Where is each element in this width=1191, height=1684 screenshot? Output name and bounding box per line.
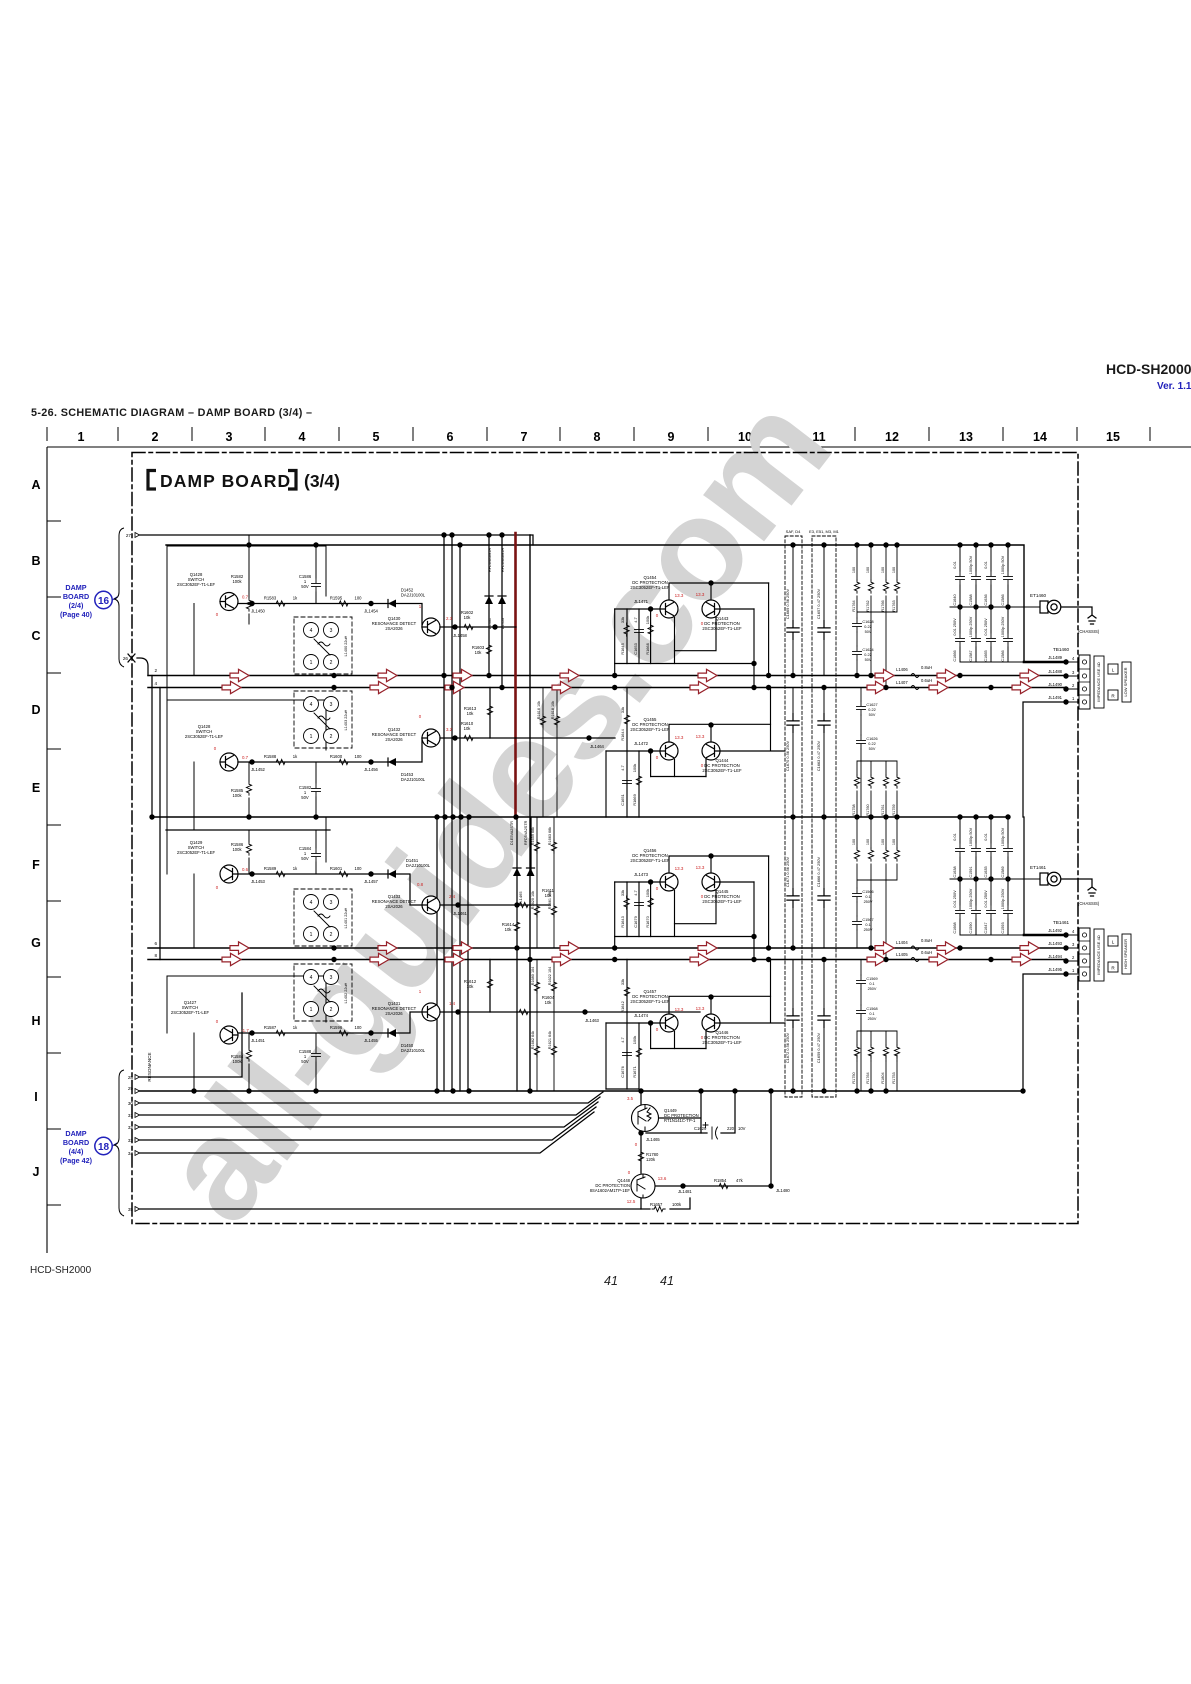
svg-text:0.22: 0.22	[868, 742, 875, 746]
wire second bus feed	[147, 687, 149, 689]
resistor/capacitor columns R1764/R1762/R1766/R1763, C1628/C1624, C1627/C1626, R1758/R1760/R1761/R1759, C1566/C1567, C1569/C1568, R1750 group	[852, 545, 900, 1091]
svg-text:100: 100	[355, 866, 363, 871]
node JL1480	[768, 1183, 773, 1188]
svg-text:R1682 64k: R1682 64k	[531, 1031, 535, 1049]
svg-text:47k: 47k	[736, 1178, 744, 1183]
svg-text:100: 100	[852, 567, 856, 573]
inner board title	[148, 471, 340, 492]
svg-text:R1642: R1642	[620, 1001, 625, 1012]
svg-text:C1666: C1666	[953, 650, 957, 661]
box Q1429	[167, 817, 326, 874]
svg-text:100k: 100k	[232, 793, 242, 798]
svg-text:2: 2	[1072, 955, 1075, 960]
DC protection block Q1449 / Q1448	[590, 1091, 791, 1212]
transistor Q1456 DC protection	[660, 873, 678, 891]
svg-text:13.3: 13.3	[675, 735, 684, 740]
svg-text:0: 0	[216, 1019, 219, 1024]
svg-text:ET1461: ET1461	[1030, 865, 1047, 870]
svg-text:-1.7: -1.7	[241, 1028, 249, 1033]
svg-text:0.01 250V: 0.01 250V	[953, 618, 957, 636]
svg-text:250V: 250V	[868, 987, 877, 991]
svg-text:41: 41	[604, 1274, 618, 1288]
svg-text:0.22: 0.22	[868, 708, 875, 712]
svg-text:0: 0	[216, 612, 219, 617]
svg-text:100k: 100k	[672, 1202, 682, 1207]
connector line 28	[137, 993, 242, 1077]
svg-text:DA2J10100L: DA2J10100L	[401, 593, 426, 598]
svg-text:R1680 104: R1680 104	[531, 967, 535, 986]
svg-text:R1670: R1670	[645, 915, 650, 927]
svg-text:C1638: C1638	[953, 866, 957, 877]
svg-text:0.01: 0.01	[953, 561, 957, 568]
node JL1481	[680, 1183, 685, 1188]
svg-text:100k: 100k	[232, 579, 242, 584]
svg-text:1: 1	[78, 430, 85, 444]
resistor R1643 33k	[624, 896, 629, 909]
svg-text:R1600: R1600	[330, 754, 343, 759]
diode D1450 DA2J10100L	[388, 1029, 396, 1037]
diode D1453 DA2J10100L	[388, 758, 396, 766]
channel series parts JL1450/JL1454/JL1452/JL1456/JL1453/JL1457/JL1451/JL1455	[249, 588, 430, 1054]
svg-text:100k: 100k	[632, 764, 637, 772]
vertical feeds at 249 and 316	[248, 535, 250, 624]
transistor Q1445 DC protection	[702, 873, 720, 891]
cluster components	[623, 623, 654, 1061]
relay L1401	[294, 889, 352, 946]
bold speaker wire pin4 lower	[1024, 934, 1066, 937]
svg-text:C1651: C1651	[620, 794, 625, 805]
transistor Q1448 DC protection 8SA1602AM1TP-1EF	[631, 1174, 655, 1198]
svg-text:R1750: R1750	[852, 1072, 856, 1083]
watermark all-guides.com	[129, 369, 860, 1250]
svg-text:50V: 50V	[301, 1059, 309, 1064]
svg-text:1.4: 1.4	[449, 1001, 456, 1006]
pair2 Q1455/Q1444	[606, 688, 785, 818]
svg-text:100: 100	[866, 839, 870, 845]
svg-text:R1659 68k: R1659 68k	[531, 827, 535, 845]
svg-text:C1659 0.47 250V: C1659 0.47 250V	[816, 1032, 821, 1063]
svg-text:50V: 50V	[865, 630, 872, 634]
svg-text:13.3: 13.3	[675, 1007, 684, 1012]
svg-text:C1668: C1668	[953, 922, 957, 933]
svg-text:3: 3	[1072, 942, 1075, 947]
resistor R1587 1k	[274, 1030, 287, 1035]
resistor R1584 100k	[246, 1048, 251, 1061]
bold speaker wire pin4 upper	[1024, 661, 1066, 664]
svg-text:100: 100	[852, 839, 856, 845]
wiring boxes	[167, 535, 326, 1091]
svg-text:100k: 100k	[645, 616, 650, 624]
svg-text:R1622 104: R1622 104	[548, 967, 552, 986]
svg-text:R: R	[1111, 694, 1115, 699]
resistor R1645 33k	[624, 623, 629, 636]
svg-text:R1643: R1643	[620, 916, 625, 927]
svg-text:R1764: R1764	[866, 1072, 870, 1083]
svg-text:C1653: C1653	[633, 643, 638, 654]
resistor R1670 100k	[648, 896, 653, 909]
svg-text:TB1460: TB1460	[1053, 647, 1070, 652]
svg-text:E: E	[32, 781, 40, 795]
svg-text:C1566: C1566	[862, 890, 873, 894]
svg-text:JL1465: JL1465	[518, 891, 523, 905]
svg-text:I: I	[34, 1090, 37, 1104]
svg-text:L1405: L1405	[896, 952, 908, 957]
connector line 35	[137, 1198, 690, 1209]
svg-text:C1666 0.47 250V: C1666 0.47 250V	[816, 856, 821, 887]
circled 16	[95, 591, 112, 608]
row ticks	[47, 521, 61, 1205]
svg-text:C1624: C1624	[862, 648, 873, 652]
svg-text:C1568: C1568	[866, 1007, 877, 1011]
svg-text:JL1495: JL1495	[1048, 967, 1062, 972]
svg-text:C1657 0.47 250V: C1657 0.47 250V	[816, 588, 821, 619]
svg-text:3.2: 3.2	[446, 727, 453, 732]
svg-text:4.7: 4.7	[633, 890, 638, 895]
pair4 Q1457/Q1446	[606, 960, 785, 1090]
svg-text:33k: 33k	[620, 979, 625, 985]
capacitor banks C1640/C1588/C1636/C1586 and C1638/C1591/C1635/C1589	[950, 545, 1041, 935]
svg-text:100k: 100k	[632, 1036, 637, 1044]
svg-text:SAF, D4: SAF, D4	[786, 529, 801, 534]
svg-text:0.8uH: 0.8uH	[921, 938, 932, 943]
svg-text:2SC3052EF-T1-LEF: 2SC3052EF-T1-LEF	[630, 999, 670, 1004]
transistor Q1455 DC protection	[660, 742, 678, 760]
mid bundle verticals	[436, 817, 438, 1091]
svg-text:JL1464: JL1464	[590, 744, 604, 749]
svg-text:R1620 10k: R1620 10k	[531, 891, 535, 909]
svg-text:10k: 10k	[464, 615, 472, 620]
svg-text:13.3: 13.3	[696, 1006, 705, 1011]
svg-text:R1583: R1583	[264, 596, 277, 601]
svg-text:0: 0	[656, 755, 659, 760]
svg-text:0.01 250V: 0.01 250V	[953, 890, 957, 908]
svg-text:0.01 250V: 0.01 250V	[984, 618, 988, 636]
column ticks	[47, 427, 1150, 441]
svg-text:2SC3052EF-T1-LEF: 2SC3052EF-T1-LEF	[171, 1010, 210, 1015]
svg-text:4: 4	[1072, 929, 1075, 934]
svg-text:14: 14	[1033, 430, 1047, 444]
resistor R1780 120k	[638, 1150, 643, 1163]
capacitor C1653 4.7	[635, 624, 644, 638]
svg-text:100: 100	[355, 754, 363, 759]
svg-text:L1402 22uH: L1402 22uH	[344, 982, 348, 1003]
terminal ET1461	[1040, 873, 1048, 885]
svg-text:R1644: R1644	[620, 728, 625, 740]
svg-text:32: 32	[128, 1125, 134, 1130]
svg-text:2SC3052EF-T1-LEF: 2SC3052EF-T1-LEF	[630, 585, 670, 590]
svg-text:JL1456: JL1456	[364, 767, 378, 772]
svg-text:0.1: 0.1	[869, 1012, 874, 1016]
blue label DAMP BOARD 4/4	[60, 1129, 93, 1165]
svg-text:JL1474: JL1474	[634, 1013, 649, 1018]
svg-text:R1761: R1761	[881, 804, 885, 815]
transistor Q1430 resonance detect	[422, 618, 440, 636]
page header and rulers	[30, 361, 1191, 1288]
svg-text:0: 0	[628, 1170, 631, 1175]
transistor Q1444 DC protection	[702, 742, 720, 760]
svg-text:220: 220	[727, 1126, 735, 1131]
transistor Q1433 resonance detect	[422, 896, 440, 914]
svg-text:(CHASSIS): (CHASSIS)	[1078, 901, 1100, 906]
svg-text:2SC3052EF-T1-LEF: 2SC3052EF-T1-LEF	[177, 850, 216, 855]
dark red vertical wire	[514, 533, 517, 818]
transistor Q1443 DC protection	[702, 600, 720, 618]
svg-text:R1763: R1763	[892, 600, 896, 611]
connector line 33	[137, 1107, 596, 1140]
transistor Q1449 DC protection RT1N141C-TP-1	[632, 1105, 659, 1132]
svg-text:1000p 250V: 1000p 250V	[1001, 888, 1005, 909]
resistor R1614 10k	[514, 920, 519, 933]
svg-text:R1588: R1588	[264, 754, 277, 759]
svg-text:C1569: C1569	[866, 977, 877, 981]
svg-text:R1766: R1766	[881, 600, 885, 611]
brace upper left	[114, 528, 124, 667]
blue label DAMP BOARD 2/4	[60, 583, 93, 619]
svg-text:R1671: R1671	[632, 1066, 637, 1077]
svg-text:33k: 33k	[620, 890, 625, 896]
left long verticals	[151, 676, 153, 818]
circled 18	[95, 1137, 112, 1154]
svg-text:30: 30	[128, 1101, 134, 1106]
transistor Q1428 switch ch2	[220, 753, 238, 771]
svg-text:JL1490: JL1490	[1048, 682, 1062, 687]
svg-text:2SC3052EF-T1-LEF: 2SC3052EF-T1-LEF	[185, 734, 224, 739]
svg-text:0.6uH: 0.6uH	[921, 950, 932, 955]
capacitor C1679 4.7	[635, 897, 644, 911]
box Q1428b	[167, 700, 326, 762]
DC protection pairs	[606, 575, 785, 1089]
svg-text:B: B	[31, 554, 40, 568]
svg-text:4.7: 4.7	[633, 617, 638, 622]
svg-text:5: 5	[373, 430, 380, 444]
capacitor blocks C1669/C1657/C1670/C1663/C1671/C1666/C1672/C1659 in dashed boxes SAF,D4 / E3,E51,M3,M1	[785, 529, 840, 1097]
brace lower left	[114, 1070, 124, 1216]
svg-text:C: C	[31, 629, 40, 643]
svg-text:2SA2026: 2SA2026	[385, 737, 403, 742]
svg-text:C1672 0.56 250V: C1672 0.56 250V	[785, 1032, 790, 1063]
svg-text:4: 4	[154, 681, 157, 686]
svg-text:10k: 10k	[467, 711, 475, 716]
wire speaker bus line pin 6	[148, 947, 1066, 949]
svg-text:(2/4): (2/4)	[69, 601, 84, 610]
svg-text:4.7: 4.7	[620, 765, 625, 770]
svg-text:R1760: R1760	[866, 804, 870, 815]
diode column verticals lower	[530, 817, 532, 872]
svg-text:LOW SPEAKER: LOW SPEAKER	[1123, 667, 1128, 696]
svg-text:0: 0	[656, 886, 659, 891]
capacitor C1651 4.7	[623, 775, 632, 789]
transistor Q1427 switch	[220, 1026, 238, 1044]
svg-text:R1587: R1587	[264, 1025, 277, 1030]
cluster rotated labels	[620, 616, 650, 1078]
svg-text:2SC3052EF-T1-LEF: 2SC3052EF-T1-LEF	[630, 727, 670, 732]
resistor R1668 100k	[648, 623, 653, 636]
svg-text:BOARD: BOARD	[63, 1138, 89, 1147]
svg-text:C1586: C1586	[1001, 594, 1005, 605]
svg-text:R: R	[1111, 966, 1115, 971]
svg-text:29: 29	[128, 1086, 134, 1091]
svg-text:L1401 22uH: L1401 22uH	[344, 907, 348, 928]
diode D1453 RFD6VA6S1R	[498, 596, 506, 604]
svg-text:JL1465: JL1465	[646, 1137, 660, 1142]
svg-text:R1762: R1762	[866, 600, 870, 611]
pair1 Q1454/Q1443	[615, 583, 769, 688]
ground chassis lower	[1061, 879, 1096, 896]
svg-text:2SC3052EF-T1-LEF: 2SC3052EF-T1-LEF	[702, 768, 742, 773]
diode D1434 D1E5VA2STR	[513, 868, 521, 876]
resistor R1603 10k	[486, 643, 491, 656]
svg-text:26: 26	[123, 656, 129, 661]
svg-text:DAMP: DAMP	[65, 1129, 86, 1138]
svg-text:0: 0	[419, 714, 422, 719]
svg-text:R1804: R1804	[881, 1072, 885, 1083]
svg-text:10k: 10k	[475, 650, 483, 655]
svg-text:HCD-SH2000: HCD-SH2000	[1106, 361, 1191, 377]
svg-text:R1645: R1645	[620, 643, 625, 654]
pin labels left edge	[123, 533, 158, 1212]
wire top supply rail	[166, 545, 1024, 662]
node JL1465	[638, 1130, 643, 1135]
svg-text:JL1492: JL1492	[1048, 928, 1062, 933]
svg-text:R1669: R1669	[632, 794, 637, 805]
svg-text:R1764: R1764	[852, 600, 856, 611]
svg-text:13.3: 13.3	[675, 866, 684, 871]
resistor R1596 100	[337, 1030, 350, 1035]
TB1461 pin1 drop	[1023, 974, 1066, 1091]
transistor Q1432 resonance detect	[422, 729, 440, 747]
svg-text:R1854: R1854	[714, 1178, 727, 1183]
capacitor C1584 1/50V	[312, 848, 321, 862]
svg-text:R1657: R1657	[650, 1202, 663, 1207]
svg-text:34: 34	[128, 1151, 134, 1156]
svg-text:100k: 100k	[232, 1059, 242, 1064]
svg-text:H: H	[31, 1014, 40, 1028]
resistor R1601 100	[337, 871, 350, 876]
svg-text:R1601: R1601	[330, 866, 343, 871]
transistor Q1446 DC protection	[702, 1014, 720, 1032]
transistor Q1454 DC protection	[660, 600, 678, 618]
wire pin26 curve	[137, 658, 148, 676]
svg-text:6: 6	[154, 941, 157, 946]
svg-text:D1453: D1453	[501, 618, 505, 629]
relay L1402	[294, 964, 352, 1021]
resistor R1583 1k	[274, 601, 287, 606]
resistor R1642 33k	[624, 985, 629, 998]
diode D1451 DA2J10100L	[388, 870, 396, 878]
svg-text:JL1458: JL1458	[453, 633, 467, 638]
svg-text:0.01 250V: 0.01 250V	[984, 890, 988, 908]
svg-text:D1E5VA2STR: D1E5VA2STR	[510, 821, 514, 845]
svg-text:1: 1	[1072, 696, 1075, 701]
row letters	[31, 478, 41, 1179]
svg-text:1000p 250V: 1000p 250V	[969, 888, 973, 909]
svg-text:1000p 50V: 1000p 50V	[1001, 555, 1005, 574]
svg-text:E3, E51, M3, M1: E3, E51, M3, M1	[809, 529, 840, 534]
svg-text:JL1488: JL1488	[1048, 669, 1062, 674]
diode column verticals upper	[488, 535, 490, 676]
svg-text:JL1452: JL1452	[251, 767, 265, 772]
column numbers	[78, 430, 1120, 444]
resistor R1595 100	[337, 601, 350, 606]
svg-text:27: 27	[126, 533, 132, 538]
svg-text:13.3: 13.3	[696, 592, 705, 597]
svg-text:0.6uH: 0.6uH	[921, 678, 932, 683]
svg-text:2SC3052EF-T1-LEF: 2SC3052EF-T1-LEF	[630, 858, 670, 863]
svg-text:50V: 50V	[301, 795, 309, 800]
svg-text:IMPEDANCE USE 4Ω: IMPEDANCE USE 4Ω	[1096, 662, 1101, 701]
svg-text:50V: 50V	[301, 856, 309, 861]
svg-text:2SC3052EF-T1-LEF: 2SC3052EF-T1-LEF	[177, 582, 216, 587]
svg-text:8SA1602AM1TP-1EF: 8SA1602AM1TP-1EF	[590, 1188, 631, 1193]
svg-text:0.8uH: 0.8uH	[921, 665, 932, 670]
svg-text:10k: 10k	[545, 1000, 553, 1005]
resistor R1671 100k	[636, 1046, 641, 1059]
svg-text:0: 0	[216, 885, 219, 890]
capacitor C1586 1/50V	[312, 578, 321, 592]
svg-text:C1665: C1665	[984, 650, 988, 661]
connector line 30	[137, 1092, 603, 1103]
svg-text:1k: 1k	[293, 596, 298, 601]
svg-text:0.01: 0.01	[984, 833, 988, 840]
resonance detect stages	[372, 604, 700, 1023]
svg-text:R1758: R1758	[852, 804, 856, 815]
svg-text:250V: 250V	[864, 928, 873, 932]
svg-text:18: 18	[98, 1142, 110, 1153]
diode D1431 RFD6VA6S1R	[485, 596, 493, 604]
svg-text:C1627: C1627	[866, 703, 877, 707]
relay L1400	[294, 617, 352, 674]
resistor R1586 100k	[246, 842, 251, 855]
svg-text:Ver. 1.1: Ver. 1.1	[1157, 381, 1191, 392]
svg-text:1k: 1k	[293, 754, 298, 759]
svg-text:1000p 50V: 1000p 50V	[1001, 827, 1005, 846]
svg-text:JL1455: JL1455	[364, 1038, 378, 1043]
wire ground rail pin 29	[137, 1090, 1023, 1092]
svg-text:1000p 50V: 1000p 50V	[969, 827, 973, 846]
wire speaker bus line pin 8	[148, 959, 1066, 961]
bias resistors and capacitors	[231, 574, 321, 1064]
svg-text:R1621 64k: R1621 64k	[548, 1031, 552, 1049]
connector TB1461 high speaker	[1048, 920, 1131, 981]
svg-text:2SC3052EF-T1-LEF: 2SC3052EF-T1-LEF	[702, 1040, 742, 1045]
svg-text:(4/4): (4/4)	[69, 1147, 84, 1156]
svg-text:100: 100	[881, 567, 885, 573]
svg-text:C1647: C1647	[984, 922, 988, 933]
svg-text:A: A	[31, 478, 40, 492]
svg-text:C1626: C1626	[866, 737, 877, 741]
svg-text:250V: 250V	[868, 1017, 877, 1021]
svg-text:31: 31	[128, 1113, 134, 1118]
svg-text:R1661 10k: R1661 10k	[548, 891, 552, 909]
capacitor C1676 4.7	[623, 1047, 632, 1061]
svg-text:L: L	[1112, 668, 1115, 673]
resistor R1657 100k	[652, 1206, 665, 1211]
connector line 32	[137, 1102, 598, 1127]
svg-text:4: 4	[299, 430, 306, 444]
svg-text:C1663 0.47 250V: C1663 0.47 250V	[816, 740, 821, 771]
svg-text:5-26. SCHEMATIC DIAGRAM –: 5-26. SCHEMATIC DIAGRAM – DAMP BOARD (3/…	[31, 407, 312, 419]
svg-text:(3/4): (3/4)	[304, 471, 340, 491]
resistor R1644 33k	[624, 713, 629, 726]
svg-text:RESONANCE: RESONANCE	[147, 1052, 152, 1081]
svg-text:C1629: C1629	[694, 1126, 707, 1131]
svg-text:13: 13	[959, 430, 973, 444]
resistor R1612 10k	[487, 977, 492, 990]
svg-text:JL1457: JL1457	[364, 879, 378, 884]
svg-text:1000p 250V: 1000p 250V	[969, 616, 973, 637]
svg-text:33: 33	[128, 1138, 134, 1143]
svg-text:JL1481: JL1481	[678, 1189, 692, 1194]
